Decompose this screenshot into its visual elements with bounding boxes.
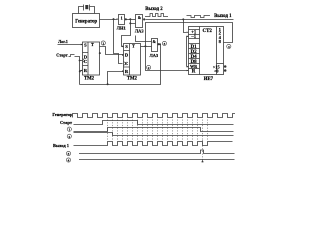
- node label 3 row: [66, 151, 70, 155]
- svg-text:&: &: [153, 39, 157, 44]
- clock waveform: [73, 114, 236, 118]
- node label 4 row: [66, 158, 70, 162]
- wire LN1 branch down: [122, 20, 136, 47]
- counter CT2 box: [189, 27, 224, 75]
- svg-text:Выход 1: Выход 1: [214, 14, 232, 19]
- start waveform: [74, 121, 234, 125]
- waveform out1 burst: [74, 142, 233, 146]
- svg-text:8: 8: [219, 39, 222, 44]
- waveform symbol out1: [187, 16, 211, 18]
- wire output2 rail: [146, 19, 234, 21]
- svg-text:D: D: [125, 53, 129, 58]
- wire Q1 to D2: [100, 47, 124, 55]
- node 4: [227, 44, 231, 48]
- wire -1 and WR feed: [187, 37, 189, 67]
- inverter LN1: [117, 15, 127, 25]
- flip-flop TM2 D1: [83, 42, 100, 75]
- carry bubbles: [224, 65, 227, 68]
- svg-text:ЛА3: ЛА3: [149, 53, 158, 58]
- svg-text:Выход 1: Выход 1: [53, 143, 69, 148]
- svg-text:WR: WR: [190, 64, 198, 69]
- svg-text:&: &: [138, 15, 142, 20]
- dashed guides: [108, 120, 208, 163]
- wire clock down to C2: [114, 20, 123, 64]
- wire start down to reset rail: [79, 61, 81, 85]
- svg-text:1: 1: [121, 15, 123, 20]
- node 1: [101, 41, 105, 45]
- svg-text:R: R: [192, 70, 196, 75]
- wire LA3-2 in1: [136, 36, 152, 42]
- nand gate LA3 U1: [136, 15, 146, 28]
- node LA3-2 out: [159, 43, 161, 45]
- svg-text:ТМ2: ТМ2: [127, 77, 138, 82]
- svg-text:Старт: Старт: [60, 120, 73, 125]
- svg-text:СТ2: СТ2: [202, 29, 212, 34]
- node LN1 out junction: [129, 18, 131, 20]
- waveform node4: [79, 159, 235, 161]
- node 2: [147, 65, 151, 69]
- start edge symbol: [69, 55, 75, 57]
- node 3: [162, 41, 166, 45]
- wire Q2: [141, 46, 152, 48]
- wire to R1: [80, 70, 83, 72]
- svg-text:ЛА3: ЛА3: [135, 29, 144, 34]
- node label 1 row: [67, 127, 71, 131]
- svg-text:ЛН1: ЛН1: [117, 25, 127, 30]
- node rail R2: [107, 83, 109, 85]
- svg-text:–1: –1: [190, 35, 196, 40]
- node R1 tap: [79, 70, 81, 72]
- svg-text:Старт: Старт: [56, 53, 68, 58]
- wire R2 feed: [108, 72, 124, 85]
- wire generator to LN1: [100, 19, 117, 21]
- waveform node3: [79, 150, 235, 154]
- wire Log1 to S1: [58, 44, 83, 46]
- svg-text:S: S: [84, 43, 87, 48]
- reset arrow row4: [201, 160, 203, 163]
- wire Q2 up to loop rail: [146, 23, 233, 47]
- flip-flop TM2 D2: [124, 44, 141, 76]
- node: clock junction: [113, 18, 115, 20]
- svg-text:T: T: [91, 42, 94, 47]
- pin arrow S2: [122, 46, 124, 48]
- pin arrow R2: [122, 70, 124, 72]
- node Q1bar dot: [99, 52, 101, 54]
- svg-text:ТМ2: ТМ2: [84, 77, 95, 82]
- node Q2 junction: [144, 45, 146, 47]
- svg-text:<0: <0: [214, 68, 219, 73]
- waveform node2: [74, 133, 234, 136]
- svg-text:C: C: [84, 59, 87, 64]
- svg-text:T: T: [132, 44, 135, 49]
- svg-text:ИЕ7: ИЕ7: [204, 77, 214, 82]
- svg-text:Выход 2: Выход 2: [145, 7, 163, 12]
- waveform node1: [74, 128, 234, 132]
- svg-text:R: R: [84, 68, 88, 73]
- svg-text:R: R: [125, 69, 129, 74]
- waveform symbol out2: [145, 14, 168, 17]
- pin arrow D2: [122, 54, 124, 56]
- nand gate LA3 U2: [152, 39, 160, 52]
- node LA3-1 in2 junction: [129, 22, 131, 24]
- svg-text:Генератор: Генератор: [52, 112, 73, 117]
- node out2 junction: [182, 18, 184, 20]
- crystal G1: [79, 5, 95, 14]
- wire LA3-2 out down to reset rail: [80, 45, 161, 85]
- wire Start to C1: [75, 57, 83, 61]
- node label 2 row: [67, 134, 71, 138]
- svg-text:Лог.1: Лог.1: [58, 39, 68, 44]
- right column separator: [217, 63, 224, 65]
- wire Q2 down to counter R: [146, 47, 189, 71]
- svg-text:Генератор: Генератор: [75, 19, 97, 24]
- node start-vert junction: [79, 60, 81, 62]
- wire LN1 out: [127, 19, 136, 21]
- wire down to +1: [184, 20, 187, 33]
- svg-text:S: S: [125, 44, 128, 49]
- generator box: [73, 14, 100, 28]
